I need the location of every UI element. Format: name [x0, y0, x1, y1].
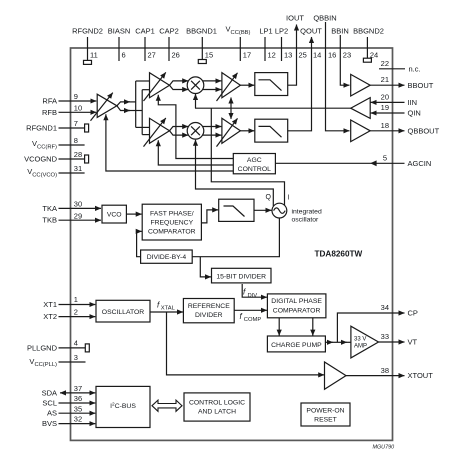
wire AGC control to I amp gain	[158, 95, 233, 159]
33V amp inner text	[354, 337, 367, 350]
wire reference divider to digital phase comparator fCOMP	[234, 309, 267, 311]
svg-text:23: 23	[343, 51, 351, 60]
pin 18 QBBOUT wire from QBBOUT amp	[370, 130, 404, 132]
pin 4 PLLGND	[59, 344, 90, 352]
oscillator I output label	[288, 195, 290, 202]
RF input amplifier (variable gain)	[91, 93, 117, 121]
svg-text:BBGND2: BBGND2	[353, 27, 384, 36]
svg-text:17: 17	[243, 51, 251, 60]
block texts	[102, 157, 345, 424]
pin 10 RFB	[59, 111, 97, 113]
svg-text:PLLGND: PLLGND	[27, 343, 58, 352]
integrated oscillator label	[292, 209, 322, 224]
pin 22 n.c. stub	[379, 68, 405, 70]
svg-text:36: 36	[74, 394, 82, 403]
svg-text:f: f	[243, 288, 246, 297]
svg-text:35: 35	[74, 404, 82, 413]
svg-text:IOUT: IOUT	[286, 14, 304, 23]
pin 37 SDA bidirectional	[60, 392, 95, 394]
pin 33 VT wire from 33V amp	[379, 341, 405, 343]
svg-text:BIASN: BIASN	[108, 27, 131, 36]
svg-text:MGU790: MGU790	[373, 445, 395, 451]
wire LO drop to oscillator I output	[211, 108, 284, 205]
svg-text:31: 31	[74, 164, 82, 173]
svg-text:29: 29	[74, 211, 82, 220]
pin 17 VCC(BB)	[239, 37, 241, 61]
pin 29 TKB	[59, 219, 102, 221]
CONTROL LOGIC AND LATCH block	[184, 393, 250, 421]
svg-text:VCC(VCO): VCC(VCO)	[27, 167, 57, 178]
svg-text:CP: CP	[408, 309, 418, 318]
svg-text:f: f	[157, 301, 160, 310]
svg-text:6: 6	[122, 51, 126, 60]
wire AGC control to RF amp gain	[106, 114, 233, 171]
wire fXTAL junction to XTOUT buffer	[167, 312, 325, 375]
fCOMP label	[240, 312, 262, 323]
svg-text:VCC(RF): VCC(RF)	[32, 139, 57, 150]
svg-text:AGCIN: AGCIN	[408, 159, 432, 168]
wire RF amp output minus to splitter	[117, 106, 142, 111]
svg-text:15: 15	[205, 51, 213, 60]
AGC CONTROL block	[233, 154, 275, 174]
wire VCO to comparator	[126, 213, 141, 215]
pin 30 TKA	[59, 207, 102, 209]
pin 23 BBIN wire to BBOUT amp	[340, 35, 349, 85]
svg-text:XTOUT: XTOUT	[408, 371, 434, 380]
svg-text:DIV: DIV	[248, 293, 258, 299]
svg-text:27: 27	[148, 51, 156, 60]
right pin numbers	[381, 59, 389, 375]
svg-text:COMPARATOR: COMPARATOR	[148, 228, 196, 235]
wire oscillator block to reference divider fXTAL	[150, 311, 183, 313]
svg-text:14: 14	[313, 51, 321, 60]
svg-text:Q: Q	[266, 194, 272, 201]
fXTAL label	[157, 301, 176, 312]
33V amplifier triangle	[351, 326, 379, 358]
wire Q mixer to Q post amp plus	[203, 126, 222, 128]
left pin labels	[24, 97, 58, 429]
svg-text:I2C-BUS: I2C-BUS	[110, 402, 136, 411]
pin 3 VCC(PLL)	[59, 361, 86, 363]
svg-text:11: 11	[90, 51, 98, 60]
I path amplifier (variable gain)	[144, 72, 170, 101]
svg-text:VCC(BB): VCC(BB)	[226, 25, 251, 36]
svg-text:IIN: IIN	[408, 98, 418, 107]
svg-text:QOUT: QOUT	[300, 27, 322, 36]
svg-text:32: 32	[74, 415, 82, 424]
svg-text:18: 18	[381, 121, 389, 130]
oscillator Q output label	[266, 194, 272, 201]
svg-text:28: 28	[74, 150, 82, 159]
right pin labels	[408, 64, 440, 380]
svg-text:3: 3	[74, 353, 78, 362]
Q post-mixer amplifier (variable gain)	[217, 118, 241, 146]
pin 31 VCC(VCO)	[59, 172, 85, 174]
svg-text:VCO: VCO	[107, 212, 122, 219]
pin 6 BIASN	[118, 37, 120, 61]
pin 27 CAP1	[144, 37, 146, 61]
wire charge pump output to 33V amp	[325, 341, 351, 343]
pin 11 RFGND2	[84, 37, 92, 64]
svg-text:LP2: LP2	[275, 27, 288, 36]
svg-text:DIVIDE-BY-4: DIVIDE-BY-4	[147, 254, 187, 261]
svg-text:AS: AS	[47, 409, 57, 418]
svg-text:4: 4	[74, 339, 78, 348]
wire comparator to loop filter	[201, 210, 218, 223]
svg-text:DIGITAL PHASE: DIGITAL PHASE	[271, 298, 322, 305]
svg-text:TKA: TKA	[42, 204, 57, 213]
svg-text:integrated: integrated	[292, 209, 322, 216]
pin 5 AGCIN wire to AGC control	[275, 160, 404, 166]
chip outline TDA8260TW	[71, 48, 393, 440]
pin 38 XTOUT wire from buffer	[346, 375, 405, 377]
wire digital phase comparator to charge pump left	[278, 318, 280, 336]
I2C-BUS block	[96, 386, 150, 427]
wire digital phase comparator to charge pump right	[312, 318, 314, 336]
fDIV label	[243, 288, 257, 300]
svg-text:FAST PHASE/: FAST PHASE/	[150, 210, 194, 217]
svg-text:13: 13	[284, 51, 292, 60]
wire Q amp to Q mixer plus	[170, 127, 189, 131]
svg-text:VCOGND: VCOGND	[24, 155, 58, 164]
DIVIDE-BY-4 block	[141, 250, 193, 263]
svg-text:15-BIT DIVIDER: 15-BIT DIVIDER	[216, 273, 266, 280]
wire loop filter to oscillator	[254, 209, 272, 211]
pin 1 XT1	[59, 304, 96, 306]
svg-text:21: 21	[381, 75, 389, 84]
pin 7 RFGND1	[59, 124, 89, 132]
pin 35 AS	[59, 412, 96, 414]
svg-text:20: 20	[381, 93, 389, 102]
wire Q post amp to Q filter	[240, 130, 254, 132]
svg-text:37: 37	[74, 384, 82, 393]
wire divide-by-4 feedback to comparator	[137, 231, 142, 256]
wire LO down into Q post amp	[230, 108, 232, 119]
svg-text:TKB: TKB	[42, 216, 57, 225]
svg-text:34: 34	[381, 303, 389, 312]
pin 15 BBGND1	[198, 37, 206, 64]
Q path amplifier (variable gain)	[144, 118, 170, 147]
svg-text:LP1: LP1	[259, 27, 272, 36]
svg-text:AGC: AGC	[247, 157, 262, 164]
pin 13 LP2	[281, 37, 283, 61]
pin 28 VCOGND	[59, 155, 89, 163]
svg-text:CONTROL: CONTROL	[238, 166, 271, 173]
loop filter block	[219, 199, 254, 221]
REFERENCE DIVIDER block	[183, 299, 234, 323]
wire Q mixer to Q post amp minus	[203, 134, 222, 136]
integrated oscillator circle	[272, 203, 287, 218]
pin 9 RFA	[59, 100, 97, 102]
wire I amp to I mixer minus	[170, 85, 189, 89]
svg-text:SDA: SDA	[42, 388, 57, 397]
POWER-ON RESET block	[301, 403, 350, 426]
svg-text:RFGND1: RFGND1	[26, 124, 57, 133]
IIN/QIN input amplifier (left pointing)	[351, 98, 371, 119]
pin 34 CP wire from charge pump output	[337, 313, 404, 342]
svg-text:TDA8260TW: TDA8260TW	[315, 250, 363, 259]
15-BIT DIVIDER block	[212, 268, 272, 283]
svg-text:BBGND1: BBGND1	[186, 27, 217, 36]
svg-text:AND LATCH: AND LATCH	[198, 408, 236, 415]
svg-text:XTAL: XTAL	[161, 306, 176, 312]
svg-text:9: 9	[74, 92, 78, 101]
wire oscillator Q output to Q mixer	[196, 140, 274, 206]
svg-text:5: 5	[383, 153, 387, 162]
svg-text:CONTROL LOGIC: CONTROL LOGIC	[189, 399, 245, 406]
svg-text:30: 30	[74, 200, 82, 209]
I low-pass filter	[255, 73, 288, 96]
CHARGE PUMP block	[267, 336, 325, 352]
svg-text:QIN: QIN	[408, 109, 421, 118]
svg-text:8: 8	[74, 136, 78, 145]
pin 26 CAP2	[168, 37, 170, 61]
left pin numbers	[74, 92, 82, 424]
BBOUT output amplifier	[351, 74, 371, 96]
svg-text:2: 2	[74, 308, 78, 317]
svg-text:POWER-ON: POWER-ON	[306, 408, 344, 415]
svg-text:10: 10	[74, 104, 82, 113]
pin 16 QBBIN wire to QBBOUT amp	[326, 22, 350, 131]
svg-text:VCC(PLL): VCC(PLL)	[29, 357, 57, 368]
svg-text:REFERENCE: REFERENCE	[188, 303, 230, 310]
svg-text:BVS: BVS	[42, 419, 57, 428]
pin 19 QIN wire into IQ input amp	[371, 112, 405, 114]
pin 25 IOUT wire from I filter output	[288, 25, 297, 86]
svg-text:QBBOUT: QBBOUT	[408, 126, 440, 135]
XTOUT buffer triangle	[325, 362, 347, 389]
svg-text:SCL: SCL	[42, 399, 57, 408]
QBBOUT output amplifier	[351, 120, 371, 142]
svg-text:XT2: XT2	[43, 312, 57, 321]
svg-text:n.c.: n.c.	[409, 64, 421, 73]
pin 32 BVS	[59, 423, 96, 425]
wire AGC control to Q amp gain	[158, 140, 233, 165]
svg-text:f: f	[240, 312, 243, 321]
svg-text:VT: VT	[408, 338, 418, 347]
wire LO distribution line from IQ input amp	[195, 107, 351, 109]
svg-text:33 V: 33 V	[354, 337, 366, 343]
svg-text:COMP: COMP	[244, 317, 262, 323]
VCO block	[102, 205, 126, 223]
svg-text:COMPARATOR: COMPARATOR	[273, 307, 321, 314]
svg-text:33: 33	[381, 332, 389, 341]
wire to Q amp input minus	[142, 134, 149, 136]
svg-text:CAP2: CAP2	[159, 27, 179, 36]
wire RF amp output plus to splitter	[117, 102, 136, 106]
svg-text:1: 1	[74, 295, 78, 304]
pin 2 XT2	[59, 316, 96, 318]
svg-text:22: 22	[381, 59, 389, 68]
svg-text:12: 12	[268, 51, 276, 60]
svg-text:RFB: RFB	[42, 108, 57, 117]
svg-text:RFGND2: RFGND2	[72, 27, 103, 36]
I2C bus double block arrow	[152, 400, 182, 411]
svg-text:CAP1: CAP1	[135, 27, 155, 36]
svg-text:CHARGE PUMP: CHARGE PUMP	[271, 342, 322, 349]
wire I amp to I mixer plus	[170, 81, 189, 85]
svg-text:24: 24	[370, 51, 378, 60]
pin 14 QOUT wire from Q filter output	[288, 37, 312, 131]
svg-text:BBIN: BBIN	[331, 27, 349, 36]
drawing code MGU790	[373, 445, 395, 451]
svg-text:DIVIDER: DIVIDER	[195, 312, 223, 319]
Q low-pass filter	[255, 119, 288, 142]
svg-text:QBBIN: QBBIN	[313, 14, 336, 23]
wire splitter vertical 2	[141, 90, 143, 135]
wire 15-bit divider to digital phase comparator fDIV	[242, 284, 267, 297]
svg-text:I: I	[288, 195, 290, 202]
top pin labels row 1	[286, 14, 337, 23]
wire LO up into I post amp	[230, 98, 232, 109]
svg-text:oscillator: oscillator	[292, 217, 320, 224]
wire Q amp to Q mixer minus	[170, 131, 189, 135]
top pin numbers	[90, 51, 378, 60]
svg-text:OSCILLATOR: OSCILLATOR	[102, 309, 145, 316]
chip name label TDA8260TW	[315, 250, 363, 259]
svg-text:25: 25	[299, 51, 307, 60]
svg-text:RESET: RESET	[314, 417, 337, 424]
pin 24 BBGND2	[363, 37, 371, 62]
wire branch to 15-bit divider	[200, 257, 211, 277]
pin 36 SCL	[59, 402, 96, 404]
wire to I amp input plus	[136, 80, 150, 82]
pin 20 IIN wire into IQ input amp	[371, 101, 405, 103]
I mixer	[187, 77, 204, 94]
OSCILLATOR block	[96, 300, 150, 322]
wire to I amp input minus	[142, 89, 149, 91]
wire splitter vertical 1	[135, 81, 137, 127]
wire I mixer to I post amp plus	[203, 80, 222, 82]
svg-text:AMP: AMP	[354, 344, 367, 350]
svg-text:16: 16	[328, 51, 336, 60]
DIGITAL PHASE COMPARATOR block	[267, 294, 326, 318]
FAST PHASE/FREQUENCY COMPARATOR block	[142, 204, 201, 240]
wire oscillator down to divide-by-4	[192, 218, 279, 257]
pin 8 VCC(RF)	[59, 144, 85, 146]
top pin labels row 2	[72, 25, 384, 36]
pin 12 LP1	[264, 37, 266, 61]
wire LO into I mixer	[195, 94, 197, 108]
Q mixer	[187, 123, 204, 140]
svg-text:BBOUT: BBOUT	[408, 81, 434, 90]
svg-text:38: 38	[381, 366, 389, 375]
svg-text:19: 19	[381, 103, 389, 112]
wire I mixer to I post amp minus	[203, 89, 222, 91]
wire I post amp to I filter	[240, 84, 254, 86]
svg-text:XT1: XT1	[43, 300, 57, 309]
pin 21 BBOUT wire from BBOUT amp	[370, 84, 404, 86]
svg-text:RFA: RFA	[42, 97, 57, 106]
I post-mixer amplifier (variable gain)	[217, 73, 241, 101]
svg-text:7: 7	[74, 119, 78, 128]
wire to Q amp input plus	[136, 126, 150, 128]
svg-text:26: 26	[172, 51, 180, 60]
svg-text:FREQUENCY: FREQUENCY	[150, 219, 193, 226]
